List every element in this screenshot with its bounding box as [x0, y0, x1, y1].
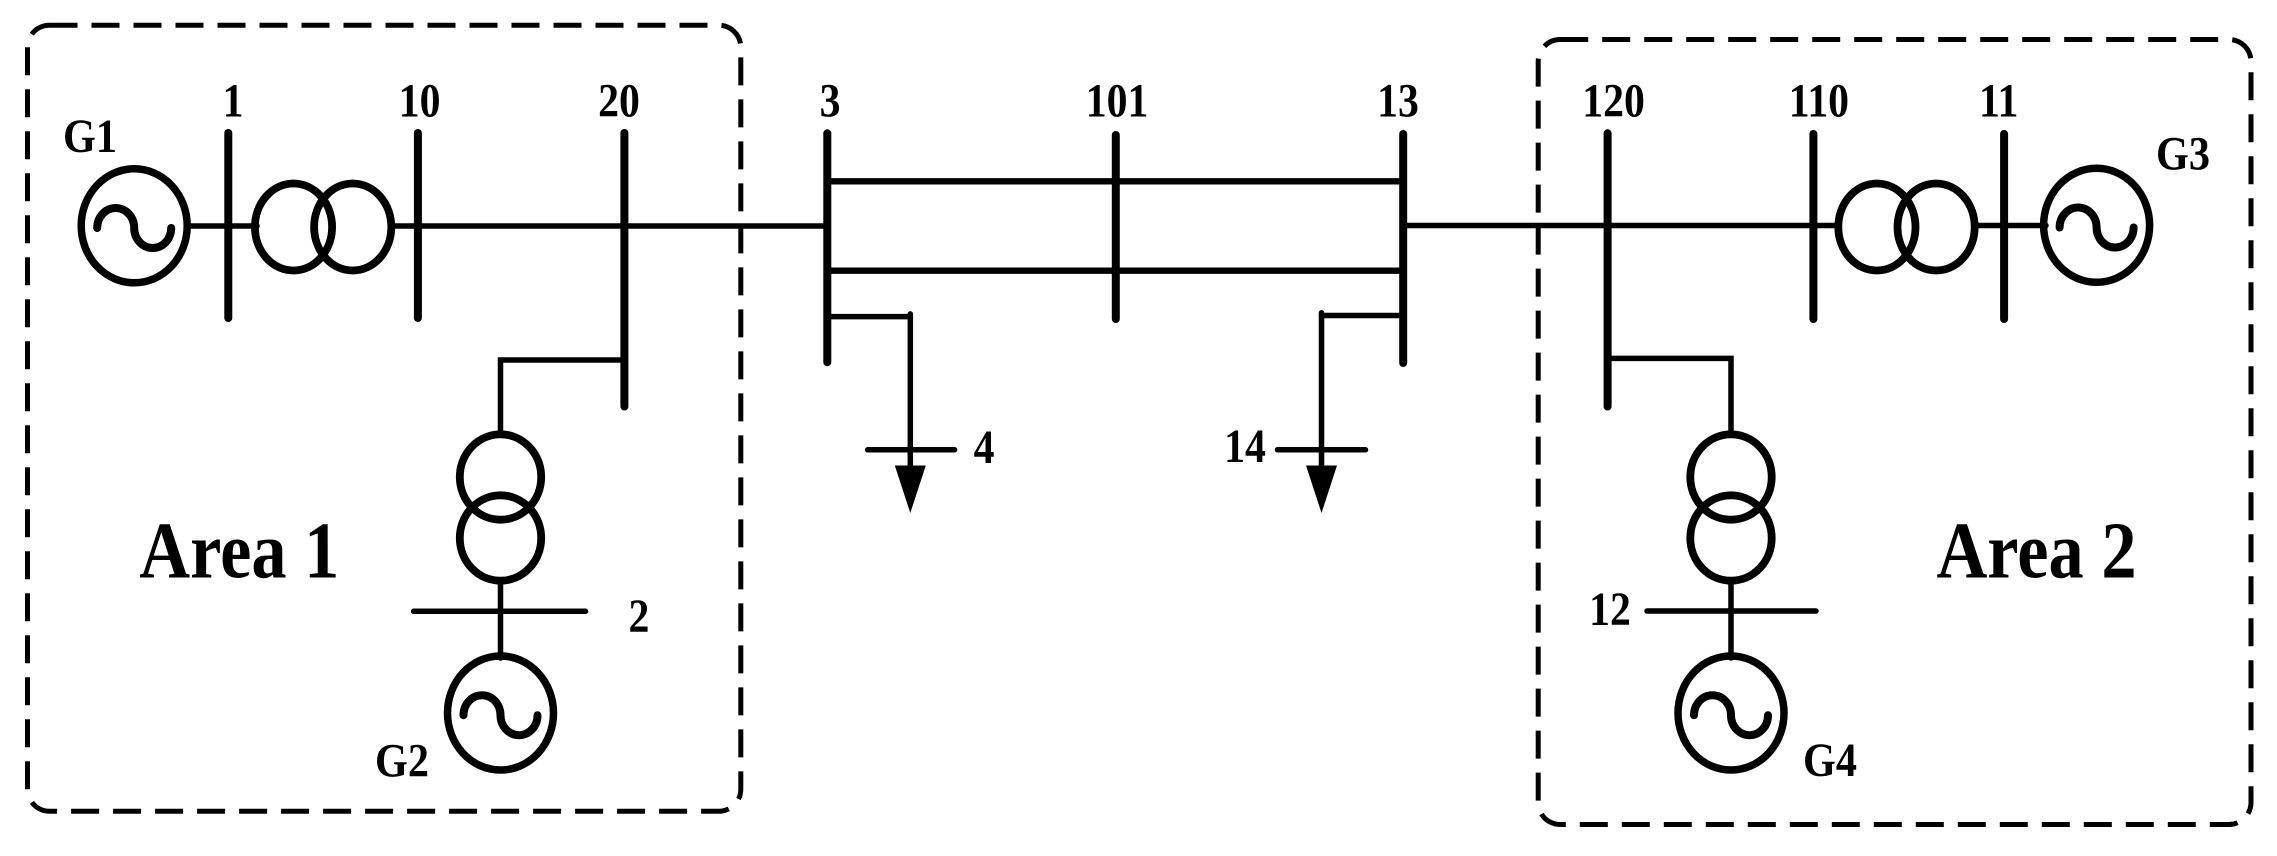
svg-text:G3: G3 [2156, 127, 2210, 180]
svg-text:14: 14 [1224, 419, 1266, 472]
transformer T2 [460, 434, 541, 519]
bus 3 [823, 133, 831, 362]
G2 sine wave [464, 695, 538, 735]
transformer T1 [255, 184, 332, 271]
bus 10 [414, 133, 422, 318]
svg-text:12: 12 [1589, 582, 1631, 635]
bus 1 [224, 133, 232, 318]
wire G1 to transformer T1 [187, 223, 257, 229]
bus 11 [2000, 134, 2008, 319]
wire T2 to bus 2 [498, 583, 504, 611]
svg-text:101: 101 [1086, 74, 1149, 127]
generator G3 [2044, 168, 2150, 282]
transmission line top [827, 178, 1403, 184]
svg-text:1: 1 [223, 74, 244, 127]
load 4 wire horizontal [827, 314, 910, 320]
svg-text:10: 10 [399, 74, 441, 127]
bus 20 [620, 133, 628, 407]
Area 1 boundary [28, 25, 741, 811]
load 14 wire vertical [1319, 313, 1325, 472]
load 14 crossbar [1278, 447, 1366, 453]
Area 2 boundary [1538, 40, 2251, 825]
transformer T4 [1690, 434, 1771, 519]
wire bus 13 to transformer T3 [1403, 223, 1838, 229]
wire T1 to bus 3 [394, 223, 827, 229]
generator G4 [1678, 656, 1784, 770]
transformer T3 [1838, 184, 1915, 271]
svg-text:13: 13 [1377, 74, 1419, 127]
svg-text:Area 1: Area 1 [139, 507, 339, 595]
svg-text:4: 4 [974, 420, 995, 473]
wire bus 12 to G4 [1728, 611, 1734, 658]
G3 sine wave [2060, 208, 2134, 248]
bus 13 [1399, 134, 1407, 363]
svg-text:G1: G1 [63, 110, 117, 163]
wire bus 2 to G2 [498, 611, 504, 658]
load 4 wire vertical [908, 314, 914, 472]
wire bus 20 branch to T2 [501, 360, 625, 432]
G4 sine wave [1694, 695, 1768, 735]
load 14 wire horizontal [1322, 313, 1404, 319]
bus 2 [414, 609, 586, 615]
wire bus 120 branch to T4 [1608, 358, 1731, 432]
load 4 arrowhead [895, 466, 926, 514]
wire T4 to bus 12 [1728, 584, 1734, 611]
transmission line bottom [827, 268, 1403, 274]
svg-text:20: 20 [598, 74, 640, 127]
svg-text:Area 2: Area 2 [1936, 507, 2136, 595]
svg-text:G4: G4 [1803, 734, 1857, 787]
bus 120 [1604, 133, 1612, 406]
svg-text:G2: G2 [375, 734, 429, 787]
bus 12 [1647, 608, 1816, 614]
bus 110 [1809, 134, 1817, 319]
load 14 arrowhead [1306, 466, 1337, 514]
svg-text:120: 120 [1582, 74, 1645, 127]
svg-text:3: 3 [820, 74, 841, 127]
G1 sine wave [97, 208, 171, 248]
wire T3 to G3 [1976, 223, 2047, 229]
bus 101 [1112, 135, 1120, 319]
generator G1 [81, 169, 187, 283]
load 4 crossbar [868, 447, 955, 453]
svg-text:11: 11 [1979, 74, 2018, 127]
svg-text:2: 2 [628, 589, 649, 642]
generator G2 [448, 656, 554, 770]
svg-text:110: 110 [1789, 74, 1849, 127]
